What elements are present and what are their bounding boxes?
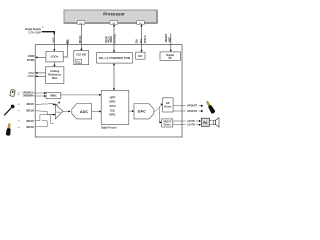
- svg-text:PLL: PLL: [77, 62, 82, 64]
- single supply label: [25, 26, 44, 34]
- svg-text:INT: INT: [168, 36, 171, 42]
- pin labels SDA SCL: [135, 36, 147, 43]
- svg-text:LOUTP: LOUTP: [187, 120, 195, 123]
- processor pin box P2: [110, 21, 118, 25]
- svg-text:IOVDD: IOVDD: [27, 59, 35, 62]
- svg-text:MIC2P: MIC2P: [26, 120, 34, 123]
- svg-text:Digital Process: Digital Process: [101, 125, 117, 129]
- PA box: [201, 118, 209, 126]
- LDOs box: [46, 51, 63, 62]
- HP driver box: [163, 98, 173, 112]
- arrows into PGA: [54, 103, 56, 105]
- wire MICBIAS: [35, 75, 45, 77]
- headphone plug icon: [205, 100, 216, 114]
- svg-text:PA: PA: [203, 121, 208, 125]
- chip outline: [35, 45, 182, 137]
- PGA triangle: [55, 104, 63, 119]
- digital process box: [101, 91, 129, 125]
- ADC converter: [72, 104, 92, 119]
- wire LDO to DVDD pin: [63, 42, 67, 58]
- pin labels BCLK WCLK DIN DOUT: [104, 34, 116, 44]
- DMIC dashes: [17, 93, 19, 95]
- svg-text:PGA: PGA: [56, 111, 61, 114]
- svg-text:AVSS: AVSS: [67, 39, 70, 44]
- svg-text:AVDD: AVDD: [28, 55, 35, 58]
- wire AVDD/IOVDD: [35, 56, 46, 58]
- wire digital process to DAC: [129, 110, 134, 112]
- svg-text:(1): (1): [42, 26, 45, 28]
- wire to Digital I/O: [170, 34, 172, 52]
- wire LDOs to analog reference: [53, 62, 55, 67]
- svg-text:I2C: I2C: [138, 54, 142, 58]
- wire bias stub: [51, 115, 54, 124]
- svg-text:Driver: Driver: [164, 104, 171, 108]
- svg-text:AVDD: AVDD: [53, 37, 56, 43]
- mic1 dashes: [18, 104, 20, 111]
- svg-text:SDA: SDA: [135, 39, 138, 43]
- labels AVDD IOVDD: [27, 55, 35, 62]
- svg-text:I2C: I2C: [139, 23, 143, 25]
- svg-text:MIC1P: MIC1P: [26, 103, 34, 106]
- svg-text:LOUTN: LOUTN: [187, 124, 195, 127]
- wire HPOUTP: [173, 105, 186, 107]
- wire DMDIN: [34, 95, 46, 97]
- labels HPOUTP HPOUTN: [187, 105, 197, 113]
- wire I2S to digital process (bidirectional): [113, 63, 115, 90]
- svg-text:MICBIAS: MICBIAS: [28, 75, 35, 78]
- supply wire: [42, 32, 56, 52]
- svg-text:GPIO: GPIO: [144, 38, 147, 43]
- labels MIC1P MIC1N: [26, 103, 34, 113]
- wires PA to speaker: [209, 121, 212, 125]
- labels MIC2P MIC2N: [26, 120, 34, 129]
- wire DMCLK: [34, 92, 46, 94]
- node junction dots: [53, 104, 54, 105]
- LINEOUT driver box: [162, 119, 173, 127]
- arrow to headphone P: [199, 105, 204, 107]
- PGA gain arrow: [55, 102, 59, 106]
- svg-text:SCL: SCL: [140, 38, 143, 43]
- wire DMIC to digital process: [61, 94, 101, 96]
- svg-text:filter: filter: [52, 76, 58, 80]
- wire row2 MIC1N: [35, 111, 53, 115]
- DMIC box: [46, 93, 61, 99]
- wire MCLK: [80, 24, 82, 51]
- wire PGA to ADC: [63, 110, 71, 112]
- Digital I/O box: [160, 52, 180, 60]
- mic 1 icon: [4, 105, 14, 116]
- wire I2C (bidirectional): [140, 24, 142, 52]
- svg-text:Processor: Processor: [103, 12, 125, 17]
- svg-text:CLK DIV: CLK DIV: [76, 53, 86, 56]
- wire row4 MIC2N: [35, 125, 47, 128]
- wire to PA P: [196, 120, 201, 122]
- svg-text:Reference: Reference: [48, 72, 62, 76]
- svg-text:HPOUTN: HPOUTN: [187, 110, 197, 113]
- svg-text:I/O: I/O: [169, 57, 172, 60]
- DMIC icon: [10, 89, 15, 96]
- pin labels GPIO INT: [165, 33, 171, 42]
- headset jack icon: [6, 123, 12, 136]
- svg-text:DOUT/DIN2: DOUT/DIN2: [112, 34, 116, 44]
- mic2 dashes: [18, 121, 20, 127]
- CLK DIV box: [74, 51, 89, 65]
- DAC converter: [134, 104, 154, 119]
- svg-text:DMIC: DMIC: [50, 94, 57, 98]
- PLL box: [76, 59, 82, 63]
- wire LOUTP: [173, 120, 186, 122]
- labels DMCLK DMDIN: [23, 92, 34, 98]
- wire row1 MIC1P: [35, 103, 53, 106]
- svg-text:HPOUTP: HPOUTP: [187, 105, 197, 108]
- svg-text:LDOs: LDOs: [51, 55, 59, 59]
- I2S interface box: [97, 53, 133, 63]
- arrow to headphone N: [199, 110, 204, 112]
- wire to PA N: [196, 124, 201, 126]
- svg-text:1.7V–3.6V: 1.7V–3.6V: [28, 30, 42, 34]
- svg-text:MCLK: MCLK: [78, 35, 82, 43]
- processor box: [64, 10, 157, 23]
- svg-text:Analog: Analog: [50, 69, 59, 73]
- mic input network wires: [35, 104, 54, 127]
- wire ADC to digital process: [92, 110, 102, 112]
- wire DAC fork: [154, 105, 162, 123]
- svg-text:MIC1N: MIC1N: [26, 110, 34, 113]
- wire I2S bus (bidirectional): [113, 24, 115, 52]
- analog reference filter box: [46, 67, 64, 84]
- svg-text:DAC: DAC: [138, 110, 146, 114]
- processor pin box P1: [77, 21, 85, 25]
- speaker icon: [213, 118, 219, 128]
- svg-text:ADC: ADC: [80, 110, 88, 114]
- svg-text:I2S, LJ, PCM/DSP, TDM: I2S, LJ, PCM/DSP, TDM: [99, 56, 131, 60]
- I2C box: [136, 52, 145, 59]
- wire row3 MIC2P riser: [35, 115, 53, 121]
- wire row3 cont to row4 rail: [42, 121, 48, 127]
- wire VREF: [35, 72, 45, 74]
- svg-text:Driver: Driver: [164, 124, 171, 127]
- wire LOUTN: [173, 124, 186, 126]
- wire HPOUTN: [173, 110, 186, 112]
- svg-text:DIN/DMDIN: DIN/DMDIN: [23, 94, 34, 97]
- svg-text:(2): (2): [144, 36, 147, 38]
- svg-text:DRC: DRC: [109, 113, 116, 117]
- svg-text:MIC2N: MIC2N: [26, 126, 34, 129]
- processor pin box P3: [137, 21, 145, 25]
- labels LOUTP LOUTN: [187, 120, 195, 127]
